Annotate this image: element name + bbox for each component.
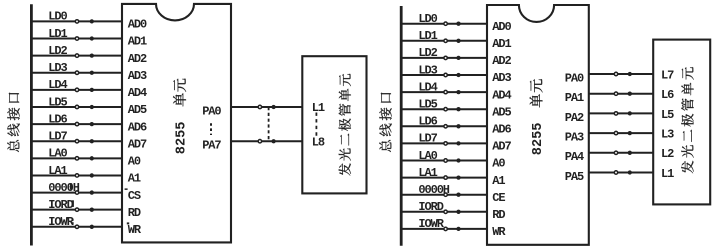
svg-text:L7: L7 <box>661 68 674 82</box>
svg-text:LD3: LD3 <box>48 61 67 75</box>
svg-text:AD3: AD3 <box>128 69 147 83</box>
svg-text:PA3: PA3 <box>565 131 584 145</box>
svg-text:IORD: IORD <box>48 198 73 212</box>
svg-text:LD0: LD0 <box>418 12 437 26</box>
svg-text:AD0: AD0 <box>128 18 147 32</box>
wire LD2 (bus to 8255 pin AD2, right diagram) <box>400 46 487 60</box>
ellipsis between L1 and L8 <box>315 113 317 139</box>
svg-text:PA0: PA0 <box>202 104 221 118</box>
wire LD4 (bus to 8255 pin AD4, right diagram) <box>400 80 487 94</box>
LED unit box 发光二极管单元 (left diagram) <box>302 56 366 193</box>
overline tick on WR <box>127 222 129 224</box>
wire LD0 (bus to 8255 pin AD0, right diagram) <box>400 12 487 26</box>
svg-text:RD: RD <box>128 206 141 220</box>
bus line (right diagram vertical bus) <box>400 6 403 246</box>
svg-text:WR: WR <box>128 223 142 237</box>
caret artifact after 0000H <box>70 183 72 189</box>
label 8255 单元 (left IC, rotated) <box>173 79 189 155</box>
svg-text:LD4: LD4 <box>48 78 67 92</box>
wire LA0 (bus to 8255 pin A0) <box>31 147 123 161</box>
svg-text:AD5: AD5 <box>492 105 511 119</box>
wire PA3 to L3 <box>589 131 653 135</box>
svg-text:A1: A1 <box>492 174 505 188</box>
svg-text:AD6: AD6 <box>492 123 511 137</box>
wire LD5 (bus to 8255 pin AD5, right diagram) <box>400 98 487 112</box>
svg-text:0000H: 0000H <box>48 181 79 195</box>
svg-text:RD: RD <box>492 208 505 222</box>
svg-text:LD4: LD4 <box>418 80 437 94</box>
svg-text:AD2: AD2 <box>492 54 511 68</box>
svg-text:L2: L2 <box>661 147 674 161</box>
svg-text:AD7: AD7 <box>128 137 147 151</box>
svg-text:LD2: LD2 <box>48 44 67 58</box>
svg-text:LD5: LD5 <box>48 95 67 109</box>
wire 0000H (bus to 8255 pin CS) <box>31 181 123 195</box>
svg-text:LD7: LD7 <box>418 132 437 146</box>
wire PA5 to L1 <box>589 170 653 174</box>
artifact after IOWR <box>72 219 74 224</box>
wire PA1 to L6 <box>589 92 653 96</box>
wire IOWR (bus to 8255 pin WR) <box>31 215 123 229</box>
svg-text:A0: A0 <box>492 157 505 171</box>
label 8255 单元 (right IC, rotated) <box>530 79 546 155</box>
svg-text:CE: CE <box>492 191 505 205</box>
svg-text:LA0: LA0 <box>418 149 437 163</box>
node label 总线接口 (bus interface, right diagram) <box>379 93 391 152</box>
wire 0000H (bus to 8255 pin CE, right diagram) <box>400 183 487 197</box>
svg-text:LD0: LD0 <box>48 10 67 24</box>
wire LA1 (bus to 8255 pin A1, right diagram) <box>400 166 487 180</box>
svg-text:L5: L5 <box>661 108 674 122</box>
wire LD1 (bus to 8255 pin AD1, right diagram) <box>400 29 487 43</box>
wire PA4 to L2 <box>589 151 653 155</box>
wire LD6 (bus to 8255 pin AD6, right diagram) <box>400 115 487 129</box>
svg-text:PA0: PA0 <box>565 71 584 85</box>
svg-text:AD3: AD3 <box>492 71 511 85</box>
wire LD0 (bus to 8255 pin AD0) <box>31 10 123 24</box>
svg-text:LA1: LA1 <box>48 164 67 178</box>
wire LD2 (bus to 8255 pin AD2) <box>31 44 123 58</box>
wire LA1 (bus to 8255 pin A1) <box>31 164 123 178</box>
wire IORD (bus to 8255 pin RD) <box>31 198 123 212</box>
wire LD5 (bus to 8255 pin AD5) <box>31 95 123 109</box>
svg-text:8255: 8255 <box>174 122 189 155</box>
svg-text:AD1: AD1 <box>128 35 147 49</box>
svg-text:L1: L1 <box>661 167 674 181</box>
svg-text:A0: A0 <box>128 155 141 169</box>
wire LA0 (bus to 8255 pin A0, right diagram) <box>400 149 487 163</box>
IC U2: 8255 unit box (right diagram) <box>487 5 589 245</box>
wire PA7 to L8 <box>231 139 302 143</box>
svg-text:LD6: LD6 <box>418 115 437 129</box>
label 发光二极管单元 (right LED box, rotated) <box>681 67 693 173</box>
svg-text:PA5: PA5 <box>565 170 584 184</box>
svg-text:LD1: LD1 <box>48 27 67 41</box>
svg-text:0000H: 0000H <box>418 183 449 197</box>
wire LD3 (bus to 8255 pin AD3, right diagram) <box>400 63 487 77</box>
svg-text:AD5: AD5 <box>128 103 147 117</box>
wire PA0 to L7 <box>589 72 653 76</box>
wire PA0 to L1 <box>231 105 302 109</box>
svg-text:AD6: AD6 <box>128 120 147 134</box>
svg-text:L8: L8 <box>312 135 325 149</box>
overline tick on CS <box>125 188 128 190</box>
svg-text:LA1: LA1 <box>418 166 437 180</box>
svg-text:AD4: AD4 <box>492 88 511 102</box>
svg-text:A1: A1 <box>128 172 141 186</box>
bus line (left diagram vertical bus) <box>30 4 33 245</box>
svg-text:L6: L6 <box>661 88 674 102</box>
svg-text:L3: L3 <box>661 128 674 142</box>
svg-text:LD6: LD6 <box>48 112 67 126</box>
artifact after IORD <box>72 200 74 207</box>
svg-text:LD3: LD3 <box>418 63 437 77</box>
svg-text:LD7: LD7 <box>48 130 67 144</box>
node label 总线接口 (bus interface, left diagram) <box>7 93 19 152</box>
wire LD7 (bus to 8255 pin AD7, right diagram) <box>400 132 487 146</box>
svg-text:AD0: AD0 <box>492 20 511 34</box>
svg-text:IOWR: IOWR <box>48 215 74 229</box>
svg-text:AD4: AD4 <box>128 86 147 100</box>
svg-text:PA4: PA4 <box>565 150 584 164</box>
svg-text:LD2: LD2 <box>418 46 437 60</box>
wire LD1 (bus to 8255 pin AD1) <box>31 27 123 41</box>
wire IOWR (bus to 8255 pin WR, right diagram) <box>400 217 487 231</box>
wire LD3 (bus to 8255 pin AD3) <box>31 61 123 75</box>
wire IORD (bus to 8255 pin RD, right diagram) <box>400 200 487 214</box>
svg-text:CS: CS <box>128 189 141 203</box>
svg-text:AD1: AD1 <box>492 37 511 51</box>
svg-text:WR: WR <box>492 225 506 239</box>
svg-text:L1: L1 <box>312 101 325 115</box>
wire PA2 to L5 <box>589 111 653 115</box>
wire LD6 (bus to 8255 pin AD6) <box>31 112 123 126</box>
svg-text:PA2: PA2 <box>565 111 584 125</box>
ellipsis dashed wire (PA1..PA6 bundle) <box>268 107 270 141</box>
label 发光二极管单元 (left LED box, rotated) <box>339 74 351 176</box>
svg-text:LD5: LD5 <box>418 98 437 112</box>
svg-text:LA0: LA0 <box>48 147 67 161</box>
svg-text:IORD: IORD <box>418 200 443 214</box>
svg-text:LD1: LD1 <box>418 29 437 43</box>
wire LD4 (bus to 8255 pin AD4) <box>31 78 123 92</box>
IC U1: 8255 unit box (left diagram) <box>122 4 231 243</box>
svg-text:8255: 8255 <box>531 123 546 156</box>
svg-text:IOWR: IOWR <box>418 217 444 231</box>
svg-text:AD2: AD2 <box>128 52 147 66</box>
svg-text:PA7: PA7 <box>202 139 221 153</box>
ellipsis between PA0 and PA7 <box>210 123 212 135</box>
wire LD7 (bus to 8255 pin AD7) <box>31 130 123 144</box>
LED unit box 发光二极管单元 (right diagram) <box>653 40 710 205</box>
svg-text:AD7: AD7 <box>492 140 511 154</box>
svg-text:PA1: PA1 <box>565 91 584 105</box>
